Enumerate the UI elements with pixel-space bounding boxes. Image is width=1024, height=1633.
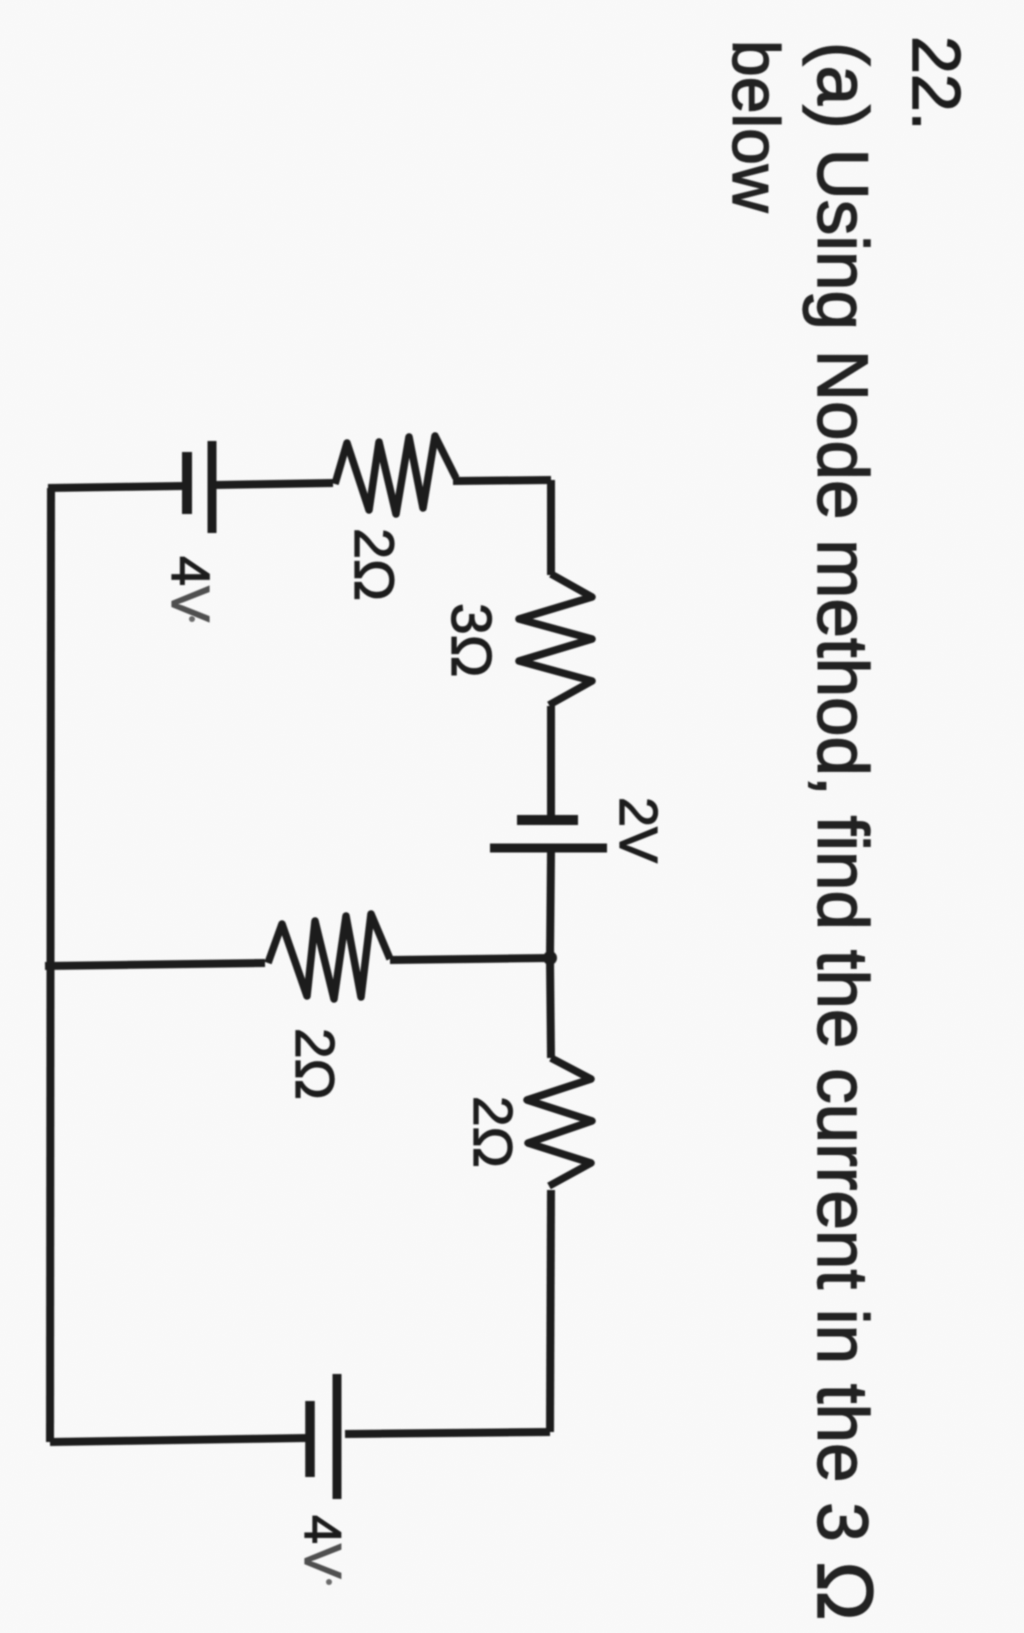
wire top left segment [48, 486, 183, 488]
battery B3 short plate [305, 1401, 315, 1477]
battery B3 tall plate [333, 1374, 342, 1499]
svg-text:2V: 2V [608, 797, 668, 863]
svg-text:4V: 4V [160, 556, 220, 622]
wire left rail [50, 488, 51, 1442]
svg-text:4V: 4V [293, 1515, 351, 1579]
battery B1 short plate [182, 452, 192, 514]
svg-text:2Ω: 2Ω [462, 1096, 524, 1168]
wire top middle segment [215, 483, 333, 485]
battery B1 tall plate [208, 441, 217, 533]
wire top right segment [453, 480, 551, 481]
battery B2 2V short plate [517, 815, 578, 825]
battery B2 2V long plate [490, 844, 607, 853]
stray dot near 4V label of B1 [189, 616, 195, 622]
resistor R2 3ohm zigzag [519, 574, 592, 705]
wire 2V battery to node N [550, 852, 551, 958]
svg-text:below: below [719, 40, 793, 213]
svg-text:2Ω: 2Ω [343, 528, 406, 601]
svg-text:3Ω: 3Ω [439, 603, 503, 677]
svg-text:2Ω: 2Ω [284, 1028, 346, 1100]
wire middle right segment [390, 958, 550, 960]
wire bottom left segment [50, 1438, 307, 1442]
resistor R1 2ohm zigzag [335, 436, 456, 514]
wire middle left segment [45, 963, 265, 966]
wire right rail lower [550, 1190, 551, 1432]
wire between 3ohm and 2V battery [547, 706, 555, 816]
svg-text:(a) Using Node method, find th: (a) Using Node method, find the current … [801, 42, 890, 1621]
resistor R4 2ohm vertical zigzag [527, 1058, 592, 1186]
wire right rail upper [547, 480, 555, 575]
wire bottom right segment [345, 1432, 550, 1434]
svg-text:22.: 22. [898, 36, 974, 131]
resistor R3 2ohm zigzag [268, 914, 390, 999]
stray dot near 4V label of B3 [326, 1579, 332, 1585]
wire node N to 2ohm vertical [550, 958, 551, 1058]
node N junction dot [543, 951, 557, 965]
